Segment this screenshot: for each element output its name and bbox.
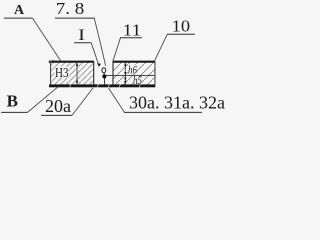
I underline [74, 42, 91, 44]
7.8 leader wire [94, 18, 105, 66]
H3 bottom arrowhead [76, 81, 78, 85]
H3 label background [55, 67, 69, 78]
h6 label background [128, 65, 137, 74]
right block internal layer line (h6/h5 boundary) [106, 75, 155, 77]
A leader wire [33, 18, 62, 61]
20a leader wire [72, 88, 93, 115]
30a underline [124, 111, 202, 113]
11 leader wire [113, 38, 121, 62]
B underline [1, 111, 28, 113]
bar slit 1 [70, 84, 72, 88]
gap ball (small ellipse ring) [102, 68, 106, 73]
bar slit 4 [119, 84, 121, 88]
30a leader wire [109, 88, 125, 112]
I leader wire [91, 43, 98, 65]
bar slit 2 [97, 84, 99, 88]
svg-text:7. 8: 7. 8 [56, 0, 85, 18]
svg-text:A: A [14, 3, 25, 18]
h6 top arrowhead [124, 62, 126, 66]
10 underline [167, 33, 195, 35]
h5 top arrowhead [124, 76, 126, 79]
svg-text:11: 11 [123, 21, 142, 40]
left block corner tick [50, 60, 54, 63]
svg-text:20a: 20a [45, 96, 71, 116]
svg-text:h5: h5 [133, 73, 142, 87]
gap dot (filled) [102, 74, 106, 78]
right block top edge (thick) [113, 61, 156, 63]
A underline [4, 17, 33, 19]
bottom bar (thick dark base layer) [49, 84, 155, 87]
gap arrowhead (end of I leader) [97, 63, 101, 67]
bar slit 3 [108, 84, 110, 88]
left block left edge [50, 61, 52, 84]
B leader wire [28, 87, 59, 113]
left block top edge (thick) [49, 61, 94, 63]
link line dot to bar [104, 78, 106, 84]
right block right edge [154, 61, 156, 84]
h6 bottom arrowhead [124, 72, 126, 75]
left block 20a body (hatched) [51, 62, 94, 85]
7.8 underline [55, 17, 94, 19]
11 underline [120, 37, 142, 39]
svg-text:I: I [78, 27, 85, 44]
svg-text:30a. 31a. 32a: 30a. 31a. 32a [129, 93, 225, 113]
bar slit 5 [139, 84, 141, 88]
H3 top arrowhead [76, 62, 78, 66]
20a underline [41, 114, 72, 116]
h6/h5 dimension line [124, 63, 126, 85]
10 leader wire [154, 34, 167, 61]
right block body (hatched) [113, 62, 155, 85]
H3 dimension line [76, 63, 78, 85]
h5 label background [133, 76, 142, 84]
h5 bottom arrowhead [124, 81, 126, 84]
svg-text:H3: H3 [55, 66, 69, 81]
link line ellipse to dot [103, 73, 105, 75]
right block left edge (gap right wall) [112, 61, 114, 84]
left block right edge (gap left wall) [93, 61, 95, 84]
svg-text:10: 10 [172, 17, 191, 36]
svg-text:B: B [7, 92, 18, 111]
